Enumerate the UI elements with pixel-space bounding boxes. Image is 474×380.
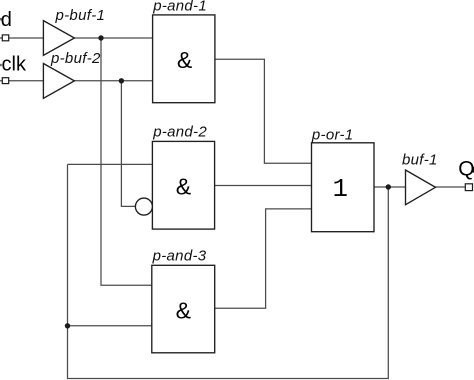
svg-text:1: 1 (333, 175, 348, 204)
svg-text:p-buf-1: p-buf-1 (55, 7, 106, 24)
svg-text:p-buf-2: p-buf-2 (50, 50, 101, 67)
svg-text:&: & (176, 174, 191, 200)
svg-text:p-and-2: p-and-2 (152, 123, 207, 140)
svg-text:Q: Q (458, 157, 474, 180)
svg-text:&: & (177, 47, 192, 73)
svg-text:&: & (176, 297, 191, 323)
svg-text:p-and-3: p-and-3 (152, 247, 207, 264)
svg-text:p-or-1: p-or-1 (311, 126, 354, 143)
svg-text:buf-1: buf-1 (402, 152, 438, 169)
svg-text:d: d (1, 9, 12, 31)
svg-text:p-and-1: p-and-1 (152, 0, 207, 15)
svg-text:clk: clk (2, 53, 27, 75)
